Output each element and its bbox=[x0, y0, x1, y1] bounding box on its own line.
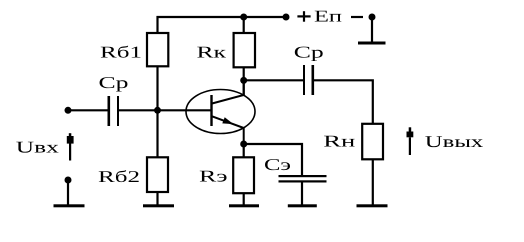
wire: dash after +Еп bbox=[351, 16, 363, 18]
wire: output Cp to Rn corner bbox=[313, 80, 373, 124]
wire: input terminal to Cp bbox=[68, 109, 108, 111]
wire: Cp to transistor base bbox=[119, 109, 212, 111]
capacitor Cp (input coupling) bbox=[108, 96, 120, 126]
node: input terminal bottom bbox=[65, 177, 72, 184]
wire: emitter to Ce corner bbox=[244, 144, 302, 176]
svg-text:Rб2: Rб2 bbox=[98, 167, 140, 186]
resistor Rb1 bbox=[147, 33, 168, 66]
ground (Ce) bbox=[288, 204, 317, 207]
wire: Re bottom stem bbox=[243, 193, 245, 205]
svg-text:Rб1: Rб1 bbox=[100, 43, 142, 62]
svg-text:Cр: Cр bbox=[99, 73, 129, 92]
node: base divider junction bbox=[154, 107, 161, 114]
node: dot before top ground bbox=[369, 14, 376, 21]
svg-text:Еп: Еп bbox=[314, 7, 342, 26]
transistor VT1 emitter lead bbox=[212, 116, 244, 144]
wire: left column Rb1 to Rb2 bbox=[156, 66, 158, 158]
ground (Rb2) bbox=[143, 204, 174, 207]
wire: Rb2 bottom stem bbox=[156, 192, 158, 205]
wire: Rk bottom to collector bbox=[243, 67, 245, 95]
transistor VT1 base bar bbox=[210, 95, 212, 126]
capacitor Cp (output coupling) bbox=[303, 65, 314, 95]
ground (Re) bbox=[229, 204, 259, 207]
wire: +Ep top rail bbox=[157, 16, 287, 18]
node: +Ep terminal dot bbox=[283, 14, 290, 21]
wire: Rk top stem bbox=[243, 17, 245, 34]
capacitor Ce (emitter bypass) bbox=[279, 175, 327, 183]
resistor Rb2 bbox=[147, 157, 168, 192]
wire: stem to top-right ground bbox=[371, 17, 373, 42]
svg-text:Uвых: Uвых bbox=[425, 132, 485, 151]
ground (Rn) bbox=[357, 204, 388, 207]
wire: Rb1 top stem bbox=[156, 16, 158, 34]
node: emitter junction bbox=[240, 141, 247, 148]
svg-text:Rк: Rк bbox=[197, 43, 228, 62]
node: junction above Rk bbox=[240, 14, 247, 21]
arrow: Uvx voltage arrow bbox=[67, 133, 74, 160]
svg-text:Uвх: Uвх bbox=[16, 137, 60, 156]
transistor VT1 collector lead bbox=[212, 79, 244, 104]
wire: input bottom stem bbox=[67, 180, 69, 205]
svg-text:Cр: Cр bbox=[294, 43, 324, 62]
ground (top right, +Ep return) bbox=[358, 42, 386, 45]
node: input terminal top bbox=[65, 107, 72, 114]
svg-text:Rэ: Rэ bbox=[199, 167, 228, 186]
transistor VT1 emitter arrow bbox=[222, 117, 233, 124]
svg-text:Rн: Rн bbox=[323, 131, 355, 150]
wire: collector to output Cp bbox=[244, 79, 304, 81]
svg-text:Cэ: Cэ bbox=[264, 155, 291, 174]
transistor VT1 body bbox=[186, 90, 255, 134]
label +Еп bbox=[297, 7, 342, 26]
arrow: Uvyh voltage arrow bbox=[407, 127, 414, 155]
wire: Ce to ground bbox=[301, 182, 303, 205]
wire: Re top stem bbox=[243, 144, 245, 158]
ground (input) bbox=[54, 204, 85, 207]
resistor Rk bbox=[234, 33, 255, 67]
resistor Re bbox=[233, 157, 254, 193]
wire: Rn bottom stem bbox=[372, 159, 374, 205]
node: collector junction bbox=[240, 77, 247, 84]
resistor Rn bbox=[362, 124, 383, 160]
